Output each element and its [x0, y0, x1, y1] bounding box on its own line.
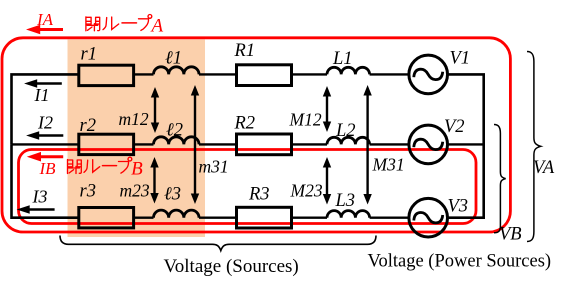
svg-text:M31: M31	[372, 155, 405, 175]
svg-text:M12: M12	[289, 110, 322, 130]
katakana pu A	[139, 15, 152, 31]
resistor R1	[237, 65, 292, 86]
current arrow I2	[26, 113, 63, 140]
katakana ru B	[84, 160, 100, 173]
svg-text:ℓ3: ℓ3	[164, 185, 181, 205]
svg-text:IB: IB	[39, 159, 57, 178]
left bus wire	[12, 144, 79, 217]
brace sources (bottom)	[60, 236, 376, 251]
katakana ru A	[103, 17, 119, 30]
inductor L1	[327, 67, 370, 74]
svg-text:Voltage (Power Sources): Voltage (Power Sources)	[368, 252, 552, 272]
resistor r1	[79, 65, 134, 85]
source V3	[409, 198, 448, 237]
svg-text:L1: L1	[332, 49, 353, 69]
katakana pu B	[119, 157, 132, 173]
chouon dash B	[103, 165, 117, 167]
resistor R3	[237, 207, 292, 228]
wire row3 mid segments	[134, 216, 409, 218]
svg-text:ℓ2: ℓ2	[166, 121, 183, 141]
resistor r3	[79, 208, 134, 228]
svg-text:V2: V2	[444, 117, 465, 137]
inductor l3	[154, 210, 200, 218]
svg-text:r3: r3	[80, 182, 96, 202]
wire row1 right + right bus	[448, 74, 484, 217]
current arrow IA (red)	[26, 10, 63, 34]
resistor r2	[79, 134, 134, 154]
wire row1 mid segments	[134, 73, 409, 75]
svg-text:I3: I3	[32, 187, 48, 207]
svg-text:I2: I2	[37, 113, 53, 133]
label loop A (kanji)	[86, 15, 152, 31]
inductor L2	[327, 137, 370, 144]
svg-text:I1: I1	[34, 85, 50, 105]
mutual arrow M23	[290, 157, 332, 205]
current arrow I1	[24, 79, 62, 105]
svg-text:V1: V1	[450, 49, 471, 69]
brace VA	[527, 52, 541, 242]
svg-text:IA: IA	[36, 10, 54, 29]
label loop B (kanji)	[68, 157, 132, 173]
svg-text:VA: VA	[533, 158, 555, 178]
kanji hei (close) B	[68, 160, 82, 174]
mutual arrow m31 (tall)	[191, 85, 229, 204]
loop A (red rounded)	[2, 38, 510, 232]
mutual arrow M31 (tall)	[363, 85, 404, 205]
svg-text:R3: R3	[248, 185, 270, 205]
svg-text:VB: VB	[499, 225, 522, 245]
svg-text:M23: M23	[290, 181, 323, 201]
svg-text:R2: R2	[234, 114, 256, 134]
mutual arrow m12	[119, 87, 160, 133]
svg-text:L2: L2	[335, 121, 356, 141]
inductor l1	[154, 67, 200, 75]
inductor l2	[154, 137, 200, 145]
svg-text:m23: m23	[120, 181, 150, 201]
svg-text:B: B	[131, 158, 143, 179]
kanji hei (close) A	[86, 17, 100, 31]
wire row2	[12, 143, 484, 145]
source V1	[409, 55, 448, 94]
loop B (red rounded)	[19, 150, 477, 224]
current arrow IB (red)	[27, 152, 63, 178]
resistor R2	[237, 134, 292, 155]
svg-text:ℓ1: ℓ1	[165, 49, 182, 69]
svg-text:r1: r1	[81, 45, 97, 65]
mutual arrow m23	[120, 157, 159, 204]
highlight band over r-l section	[68, 40, 206, 238]
svg-text:m31: m31	[199, 157, 229, 177]
chouon dash A	[122, 22, 137, 24]
inductor L3	[327, 211, 370, 218]
current arrow I3	[17, 187, 55, 214]
mutual arrow M12	[289, 86, 332, 132]
svg-text:Voltage (Sources): Voltage (Sources)	[164, 256, 299, 277]
svg-text:m12: m12	[119, 109, 149, 129]
svg-text:V3: V3	[448, 197, 469, 217]
svg-text:A: A	[150, 15, 164, 36]
svg-text:r2: r2	[80, 116, 96, 136]
wire row1	[12, 74, 79, 144]
source V2	[409, 125, 448, 164]
svg-text:L3: L3	[335, 191, 356, 211]
svg-text:R1: R1	[234, 41, 256, 61]
brace VB	[494, 125, 506, 233]
